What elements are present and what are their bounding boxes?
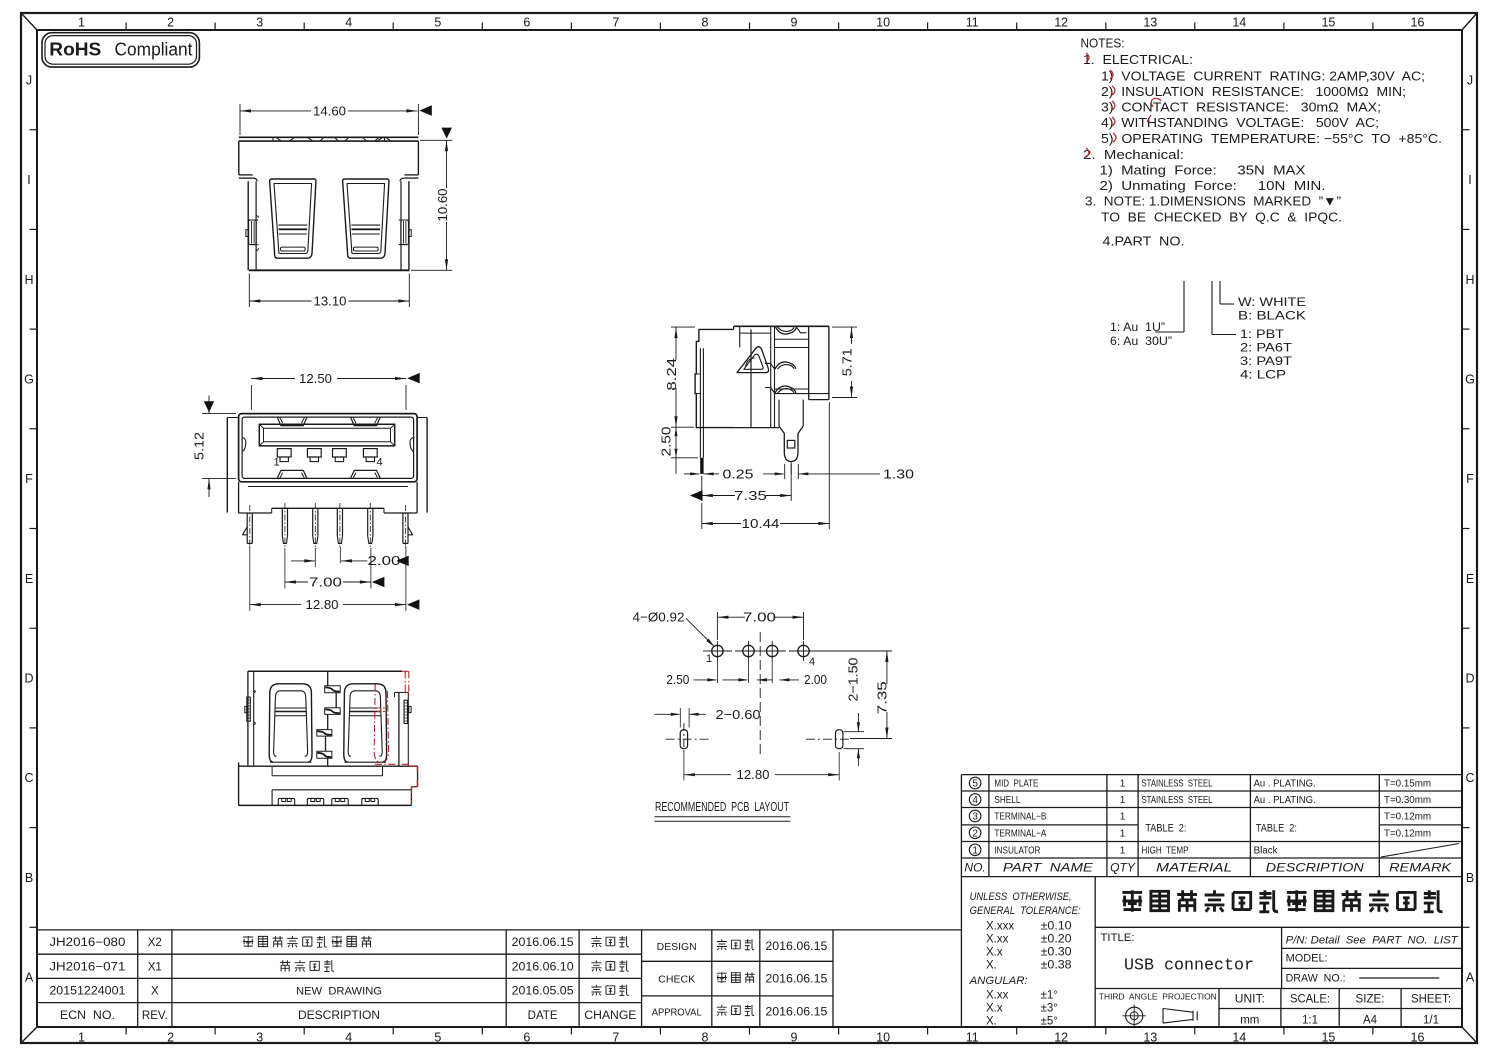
svg-text:B: BLACK: B: BLACK [1238,309,1306,323]
svg-text:2) Unmating Force: 10N: 2) Unmating Force: 10N MIN. [1100,178,1326,193]
svg-text:A: A [1466,971,1475,985]
side view body outline [695,329,734,427]
svg-text:1/1: 1/1 [1423,1014,1439,1026]
revision table grid [37,929,961,931]
svg-text:B: B [1466,871,1474,885]
top view right rail [408,181,410,270]
svg-text:D: D [1465,672,1474,686]
svg-text:Black: Black [1254,845,1279,856]
front view top dimples [277,417,307,425]
svg-text:1: 1 [1120,828,1126,839]
dimension 7.00 pcb [716,612,718,640]
svg-text:7.35: 7.35 [875,681,890,714]
svg-text:2) INSULATION RESISTANCE:: 2) INSULATION RESISTANCE: 1000MΩ MIN; [1101,84,1406,99]
svg-text:1:1: 1:1 [1302,1014,1318,1026]
svg-text:X.xx: X.xx [986,934,1009,946]
svg-text:X.x: X.x [986,947,1003,959]
front view pins [281,508,283,536]
svg-text:2: 2 [972,828,978,839]
svg-text:X: X [151,986,159,998]
bottom view seam joint 2 [325,708,341,715]
svg-text:G: G [1465,372,1475,386]
svg-text:SIZE:: SIZE: [1356,994,1385,1006]
svg-text:3: 3 [972,812,978,823]
svg-text:4) WITHSTANDING VOLTAGE: 5: 4) WITHSTANDING VOLTAGE: 500V AC; [1101,115,1379,130]
svg-text:NOTES:: NOTES: [1081,36,1125,51]
parts table circled numbers [969,777,981,789]
svg-text:4.PART NO.: 4.PART NO. [1103,234,1185,249]
red check marks on notes [1086,53,1089,62]
dimension 7.35 side [701,476,703,501]
svg-text:REMARK: REMARK [1389,860,1452,874]
front view side dimples [242,438,246,452]
top view right window [343,179,389,258]
svg-text:ECN NO.: ECN NO. [60,1010,115,1022]
dimension 7.35 pcb [886,651,888,684]
svg-text:D: D [24,672,33,686]
svg-text:JH2016−080: JH2016−080 [49,937,125,949]
svg-text:RECOMMENDED PCB LAYOUT: RECOMMENDED PCB LAYOUT [655,800,789,814]
svg-text:TABLE 2:: TABLE 2: [1256,823,1297,835]
dimension 2.50 pcb [716,661,718,683]
svg-text:X2: X2 [148,937,162,949]
side view internal verticals [739,326,741,347]
svg-text:5) OPERATING TEMPERATURE: −5: 5) OPERATING TEMPERATURE: −55°C TO +85°C… [1101,131,1442,146]
front view bottom dimples [277,470,307,478]
dimension 0.25 [684,473,699,475]
svg-text:7: 7 [612,16,619,30]
svg-text:13: 13 [1143,1031,1157,1045]
svg-text:JH2016−071: JH2016−071 [49,962,125,974]
svg-text:T=0.12mm: T=0.12mm [1384,811,1431,823]
dimension 12.80 pcb [683,752,685,781]
svg-text:NEW DRAWING: NEW DRAWING [296,986,382,998]
svg-text:2.00: 2.00 [368,553,401,568]
svg-text:QTY: QTY [1110,860,1136,874]
svg-text:CHANGE: CHANGE [584,1010,636,1022]
dimension 12.50 [250,385,252,410]
pcb slot chain line [666,738,712,740]
svg-text:0.25: 0.25 [723,466,754,481]
svg-text:W: WHITE: W: WHITE [1238,295,1306,309]
svg-text:2: 2 [167,16,174,30]
design check approval names (Chinese) [717,939,727,950]
svg-text:Au . PLATING.: Au . PLATING. [1254,779,1316,790]
bottom view left tab [247,697,251,721]
svg-text:1.30: 1.30 [883,466,914,481]
company name (Chinese) [1122,890,1142,912]
bottom view right rail [398,692,400,766]
svg-text:X.: X. [986,1016,997,1028]
svg-text:DESIGN: DESIGN [657,942,697,953]
bottom view left rail [247,671,249,766]
dimension 10.60 [420,139,452,141]
svg-text:CHECK: CHECK [658,975,695,986]
svg-text:RoHS: RoHS [49,39,101,60]
side view shell dimple middle [775,362,796,369]
svg-text:STAINLESS STEEL: STAINLESS STEEL [1142,779,1213,790]
top view outline [239,136,419,138]
svg-text:11: 11 [966,1031,979,1045]
svg-text:E: E [1466,572,1474,586]
svg-text:SHEET:: SHEET: [1411,994,1451,1006]
svg-text:UNIT:: UNIT: [1235,994,1265,1006]
bottom view base recess [271,767,273,776]
svg-text:1: 1 [972,845,978,856]
pcb line right of hole 4 [810,650,893,652]
parts table grid [961,774,1461,776]
svg-text:16: 16 [1411,1031,1425,1045]
top view left mounting tab [249,220,257,245]
dimension 7.00 front [284,548,286,589]
svg-text:10: 10 [876,1031,890,1045]
svg-text:I: I [1468,173,1471,187]
top view right mounting tab [401,220,409,245]
pcb hole chain line [703,650,711,652]
title block grid [960,877,962,1027]
pcb center dashed line [759,632,761,758]
svg-text:mm: mm [1240,1014,1259,1026]
svg-text:MID PLATE: MID PLATE [994,779,1038,790]
side view shell top edge [734,325,829,327]
top view side flanges [239,174,253,176]
svg-text:A4: A4 [1363,1014,1378,1026]
bottom view seam joint 3 [317,730,332,737]
svg-text:H: H [24,273,33,287]
svg-text:2016.06.15: 2016.06.15 [512,937,574,949]
svg-text:3: 3 [256,16,263,30]
svg-text:T=0.30mm: T=0.30mm [1384,794,1431,806]
svg-text:4: 4 [377,457,383,469]
svg-text:6: 6 [523,16,530,30]
svg-text:4: 4 [972,795,978,806]
pcb slots [680,730,687,749]
dimension 2-0.60 [679,708,681,728]
svg-text:7.00: 7.00 [309,574,342,589]
front view contacts [277,449,291,457]
svg-text:1: 1 [1120,812,1126,823]
svg-text:15: 15 [1321,1031,1335,1045]
svg-text:12: 12 [1054,1031,1068,1045]
svg-text:2−0.60: 2−0.60 [716,707,761,722]
svg-text:9: 9 [791,1031,798,1045]
svg-text:8: 8 [702,1031,709,1045]
part number tree [1183,281,1185,332]
front view right leg [402,513,404,543]
svg-text:20151224001: 20151224001 [49,986,125,998]
svg-text:7.35: 7.35 [734,488,767,503]
svg-text:J: J [26,73,32,87]
dimension 2-1.50 [844,731,865,733]
bottom view seam joint 1 [325,686,341,693]
svg-text:USB connector: USB connector [1124,957,1254,976]
bottom view seam [327,671,329,686]
side view board-lock leg [699,348,701,458]
svg-text:2016.06.10: 2016.06.10 [512,962,574,974]
svg-text:UNLESS OTHERWISE,: UNLESS OTHERWISE, [970,891,1072,903]
svg-text:±0.30: ±0.30 [1041,947,1072,959]
svg-text:16: 16 [1411,16,1425,30]
svg-text:±5°: ±5° [1041,1016,1058,1028]
svg-text:4: LCP: 4: LCP [1240,368,1286,382]
QC mark for 12.50 [407,373,420,384]
svg-text:2016.06.15: 2016.06.15 [765,1007,827,1019]
bottom view right tab [404,700,407,723]
front view shell inner [242,417,414,478]
pcb layout holes [712,645,723,656]
svg-text:I: I [27,173,30,187]
svg-text:4: 4 [809,656,815,668]
svg-text:INSULATOR: INSULATOR [994,845,1040,856]
revision change names (Chinese) [591,936,601,947]
svg-text:3: PA9T: 3: PA9T [1240,354,1293,368]
dimension 13.10 [248,274,250,308]
svg-text:±3°: ±3° [1041,1003,1058,1015]
front view side brackets [226,418,228,513]
svg-text:DATE: DATE [528,1010,558,1022]
svg-text:5.12: 5.12 [192,432,207,460]
svg-text:TERMINAL−B: TERMINAL−B [994,812,1046,823]
svg-text:4−Ø0.92: 4−Ø0.92 [633,610,685,625]
svg-text:12: 12 [1054,16,1068,30]
svg-text:TITLE:: TITLE: [1101,932,1135,944]
border column ticks and numbers [125,23,127,31]
dimension 2.00 pcb [771,661,773,683]
bottom view base [238,763,240,806]
svg-text:T=0.12mm: T=0.12mm [1384,827,1431,839]
svg-text:DRAW NO.:: DRAW NO.: [1286,973,1346,985]
svg-text:Compliant: Compliant [115,40,193,60]
svg-text:MODEL:: MODEL: [1286,953,1328,965]
svg-text:X.xx: X.xx [986,990,1009,1002]
QC mark for 10.60 [441,128,452,139]
svg-text:3. NOTE: 1.DIMENSIONS MARKED: 3. NOTE: 1.DIMENSIONS MARKED ”▼” [1085,194,1341,209]
svg-text:14: 14 [1232,1031,1246,1045]
svg-text:2: PA6T: 2: PA6T [1240,341,1293,355]
svg-text:NO.: NO. [964,860,985,874]
svg-text:F: F [1466,472,1474,486]
svg-text:±0.10: ±0.10 [1041,921,1072,933]
svg-text:1) Mating Force: 35N MA: 1) Mating Force: 35N MAX [1100,163,1306,178]
revision description Chinese row1 [243,936,254,947]
side view shell dimple top [776,327,797,334]
svg-text:REV.: REV. [142,1010,168,1022]
svg-text:J: J [1467,73,1473,87]
svg-text:5: 5 [972,779,978,790]
top view left window [270,179,316,258]
bottom view lower step [271,790,273,806]
svg-text:STAINLESS STEEL: STAINLESS STEEL [1142,795,1213,806]
svg-text:TERMINAL−A: TERMINAL−A [994,828,1046,839]
svg-text:B: B [25,871,33,885]
svg-text:3) CONTACT RESISTANCE: 30m: 3) CONTACT RESISTANCE: 30mΩ MAX; [1101,100,1381,115]
svg-text:APPROVAL: APPROVAL [652,1008,702,1019]
svg-text:2.50: 2.50 [666,672,689,687]
svg-text:2.00: 2.00 [804,672,827,687]
svg-text:E: E [25,572,33,586]
svg-text:X.x: X.x [986,1003,1003,1015]
dimension 8.24 [671,326,695,328]
svg-text:PART NAME: PART NAME [1003,860,1094,874]
svg-text:3: 3 [256,1031,263,1045]
svg-text:±0.20: ±0.20 [1041,934,1072,946]
svg-text:4: 4 [345,16,352,30]
front view plastic base [238,482,240,513]
svg-text:10.44: 10.44 [742,516,780,531]
svg-text:DESCRIPTION: DESCRIPTION [1266,860,1364,874]
dimension 2.50 side [671,457,698,459]
dimension 2.00 front [314,548,316,567]
top view shell dimples on mating edge [289,138,312,142]
svg-text:13: 13 [1143,16,1157,30]
dimension 5.71 [832,326,857,328]
dimension 5.12 [202,413,236,415]
dimension 14.60 [239,104,241,135]
svg-text:G: G [24,372,34,386]
svg-text:1: 1 [78,16,85,30]
QC mark for 14.60 [419,105,432,116]
svg-text:1: 1 [274,457,280,469]
svg-text:12.80: 12.80 [306,597,339,612]
svg-text:14.60: 14.60 [313,103,346,118]
svg-text:C: C [1465,771,1474,785]
svg-text:12.80: 12.80 [737,767,770,782]
svg-text:1: 1 [1120,779,1126,790]
svg-text:10.60: 10.60 [435,189,450,222]
bottom view seam joint 4 [317,751,332,758]
svg-text:1. ELECTRICAL:: 1. ELECTRICAL: [1083,52,1193,67]
svg-text:7: 7 [612,1031,619,1045]
svg-text:SHELL: SHELL [994,795,1020,806]
side view latch spring (A shape) [737,347,769,373]
svg-text:12.50: 12.50 [299,371,332,386]
side view solder pin [778,400,780,426]
svg-text:TO BE CHECKED BY Q.C & I: TO BE CHECKED BY Q.C & IPQC. [1101,210,1342,225]
svg-text:DESCRIPTION: DESCRIPTION [298,1010,380,1022]
dimension 1.30 [784,464,786,479]
svg-text:8: 8 [702,16,709,30]
svg-text:2: 2 [167,1031,174,1045]
svg-text:THIRD ANGLE PROJECTION: THIRD ANGLE PROJECTION [1099,991,1217,1001]
top view bottom edge [249,269,410,271]
svg-text:X.xxx: X.xxx [986,921,1014,933]
dimension 10.44 [828,402,830,529]
svg-text:6: Au 30U”: 6: Au 30U” [1110,334,1172,348]
svg-text:7.00: 7.00 [743,610,776,625]
svg-text:Au . PLATING.: Au . PLATING. [1254,795,1316,806]
svg-text:1: 1 [1120,795,1126,806]
svg-text:F: F [25,472,33,486]
svg-text:1: 1 [1120,845,1126,856]
svg-text:HIGH TEMP: HIGH TEMP [1142,845,1189,856]
svg-text:15: 15 [1321,16,1335,30]
svg-text:10: 10 [876,16,890,30]
side view horizontal lines [740,332,771,334]
svg-text:2016.06.15: 2016.06.15 [765,941,827,953]
svg-text:2−1.50: 2−1.50 [846,658,861,702]
svg-text:2.50: 2.50 [659,427,674,457]
svg-text:1: PBT: 1: PBT [1240,327,1285,341]
svg-text:C: C [24,771,33,785]
svg-text:4: 4 [345,1031,352,1045]
svg-text:T=0.15mm: T=0.15mm [1384,778,1431,790]
svg-text:2. Mechanical:: 2. Mechanical: [1083,147,1184,162]
RoHS Compliant badge [42,33,199,67]
front view shell outer [239,414,418,482]
svg-text:5.71: 5.71 [840,348,855,376]
svg-text:MATERIAL: MATERIAL [1156,860,1232,874]
svg-text:5: 5 [434,1031,441,1045]
front view tongue [259,424,394,446]
QC mark for 5.12 [204,401,214,412]
svg-text:A: A [25,971,34,985]
bottom view pin scallops [278,798,294,805]
border corner diagonals [21,13,37,30]
svg-text:1) VOLTAGE CURRENT RATING:: 1) VOLTAGE CURRENT RATING: 2AMP,30V AC; [1101,69,1425,84]
svg-text:X.: X. [986,960,997,972]
svg-text:2016.06.15: 2016.06.15 [765,974,827,986]
svg-text:6: 6 [523,1031,530,1045]
svg-text:±0.38: ±0.38 [1041,960,1072,972]
bottom view top edge [248,670,402,672]
svg-text:9: 9 [791,16,798,30]
bottom view right window [344,684,386,762]
top view left rail [247,181,249,270]
svg-text:2016.05.05: 2016.05.05 [512,986,574,998]
svg-text:TABLE 2:: TABLE 2: [1145,823,1186,835]
dimension 12.80 front [249,546,251,611]
svg-text:GENERAL TOLERANCE:: GENERAL TOLERANCE: [970,905,1081,917]
svg-text:H: H [1465,273,1474,287]
svg-text:14: 14 [1232,16,1246,30]
svg-text:1: 1 [706,653,712,665]
svg-text:P/N: Detail See PART NO. L: P/N: Detail See PART NO. LIST [1286,935,1459,947]
bottom view left window [270,684,312,762]
svg-text:1: Au 1U”: 1: Au 1U” [1110,320,1165,334]
front view left leg [246,513,248,543]
svg-text:5: 5 [434,16,441,30]
svg-text:8.24: 8.24 [664,358,679,391]
side view shell dimple bottom [775,386,796,393]
svg-text:11: 11 [966,16,979,30]
svg-text:13.10: 13.10 [314,293,347,308]
revision description Chinese row2 [280,960,291,971]
svg-text:1: 1 [78,1031,85,1045]
svg-text:±1°: ±1° [1041,990,1058,1002]
svg-text:ANGULAR:: ANGULAR: [969,975,1028,987]
border row ticks and letters [30,129,38,131]
bottom view red revision marks [402,670,409,672]
svg-text:X1: X1 [148,962,162,974]
svg-text:SCALE:: SCALE: [1290,994,1330,1006]
